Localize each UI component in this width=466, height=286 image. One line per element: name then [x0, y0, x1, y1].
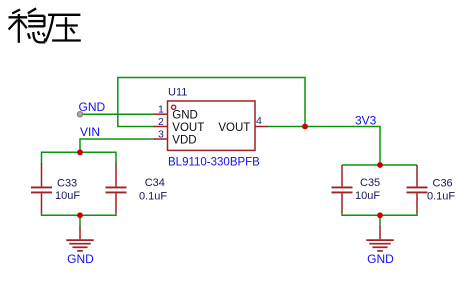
svg-text:VDD: VDD	[172, 134, 196, 146]
svg-text:VIN: VIN	[80, 125, 100, 139]
op-amp U11 body	[168, 101, 256, 150]
capacitor C34	[106, 163, 127, 213]
svg-text:0.1uF: 0.1uF	[427, 191, 455, 203]
svg-text:10uF: 10uF	[55, 190, 80, 202]
capacitor C36	[407, 165, 428, 213]
svg-text:BL9110-330BPFB: BL9110-330BPFB	[168, 156, 260, 168]
junction dot left bottom rail	[77, 212, 83, 218]
svg-text:VOUT: VOUT	[172, 122, 204, 134]
ground (left)	[66, 226, 93, 251]
pin-1 indicator circle	[172, 105, 176, 109]
U11 pin 1 stub	[154, 113, 168, 115]
svg-text:GND: GND	[67, 252, 94, 266]
wire GND net: grey-dot end to pin1	[80, 113, 155, 115]
svg-text:C34: C34	[145, 177, 165, 189]
svg-text:3: 3	[158, 128, 164, 140]
svg-text:C33: C33	[57, 177, 77, 189]
svg-text:GND: GND	[79, 100, 106, 114]
grey unconnected end dot	[77, 112, 82, 117]
压	[48, 14, 80, 16]
心 of 稳	[28, 33, 30, 39]
wire right cap group bottom rail	[342, 212, 417, 215]
wire left cap group top rail	[42, 152, 117, 163]
svg-text:GND: GND	[172, 109, 198, 121]
svg-text:GND: GND	[367, 252, 394, 266]
svg-text:C36: C36	[433, 177, 453, 189]
禾 of 稳	[12, 10, 20, 14]
svg-text:2: 2	[158, 116, 164, 128]
junction dot VIN/cap rail	[77, 149, 83, 155]
svg-text:10uF: 10uF	[355, 190, 380, 202]
wire left cap group bottom rail	[42, 212, 117, 215]
title 稳压 (drawn as strokes)	[9, 8, 81, 42]
wire top long run over IC	[118, 78, 305, 127]
wire right ground stub	[379, 215, 381, 227]
junction dot VOUT node	[302, 124, 308, 130]
U11 pin 3 stub	[154, 138, 168, 140]
wire pin2 connect	[117, 126, 155, 128]
svg-text:U11: U11	[168, 86, 187, 98]
ground (right)	[366, 226, 393, 251]
capacitor C33	[31, 163, 52, 213]
junction dot right top rail	[377, 162, 383, 168]
wire pin4 to 3V3 run	[267, 127, 380, 166]
svg-text:3V3: 3V3	[355, 114, 377, 128]
急 of 稳 : top	[28, 8, 36, 13]
svg-text:0.1uF: 0.1uF	[139, 191, 167, 203]
wire VIN drop to cap rail	[79, 138, 81, 152]
U11 pin 4 stub	[255, 126, 267, 128]
U11 pin 2 stub	[154, 126, 168, 128]
wire right cap group top rail	[342, 164, 417, 166]
svg-text:1: 1	[158, 103, 164, 115]
wire VIN net to pin3	[80, 138, 155, 140]
wire left ground stub	[79, 215, 81, 227]
capacitor C35	[332, 165, 353, 213]
junction dot right bottom rail	[377, 212, 383, 218]
svg-text:C35: C35	[360, 177, 380, 189]
svg-text:4: 4	[256, 115, 262, 127]
svg-text:VOUT: VOUT	[218, 122, 250, 134]
